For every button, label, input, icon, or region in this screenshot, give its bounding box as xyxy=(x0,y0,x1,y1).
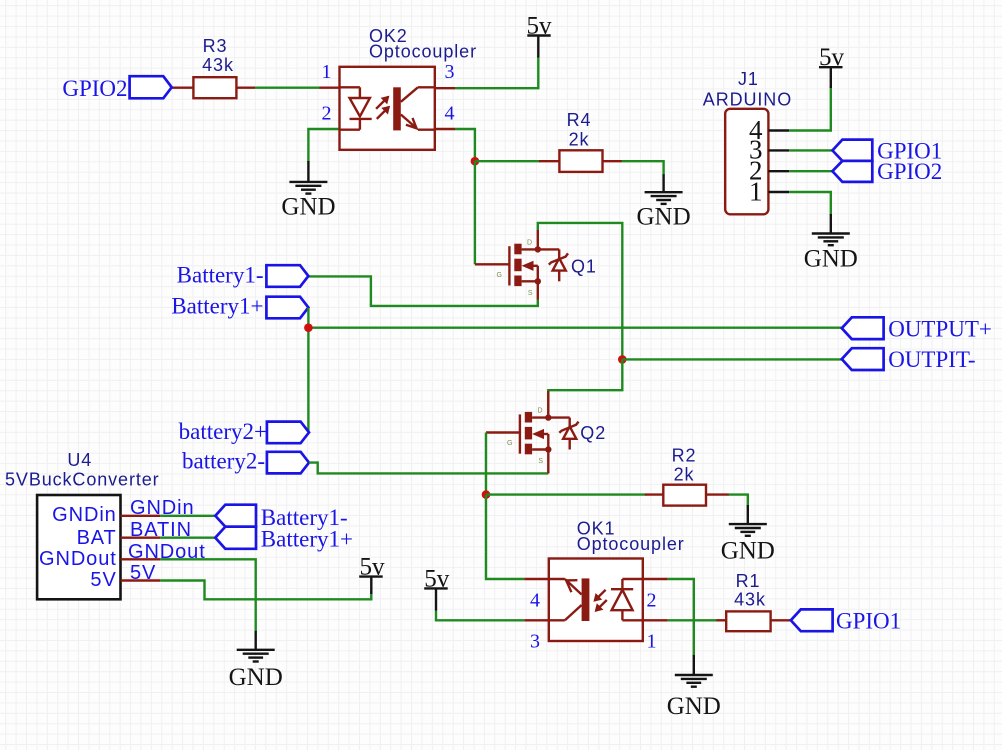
svg-text:ARDUINO: ARDUINO xyxy=(703,90,792,110)
wire battery2- to Q2 source xyxy=(309,448,548,473)
port GPIO1 R1 xyxy=(791,609,833,631)
resistor R3 xyxy=(193,77,236,98)
svg-text:GND: GND xyxy=(667,693,721,720)
svg-text:43k: 43k xyxy=(202,55,234,75)
svg-text:GPIO2: GPIO2 xyxy=(877,159,942,184)
junction node OUTPIT- xyxy=(618,355,627,364)
power 5v U4 xyxy=(359,554,385,594)
port battery2+ xyxy=(267,422,309,444)
svg-text:J1: J1 xyxy=(738,69,759,89)
svg-text:1: 1 xyxy=(647,631,657,653)
port Battery1+ U4 xyxy=(215,527,256,549)
junction node OUTPUT+ xyxy=(304,323,313,332)
svg-text:R1: R1 xyxy=(736,571,761,591)
wire U4 GNDout to ground xyxy=(160,559,255,631)
port Battery1- U4 xyxy=(215,505,256,527)
wire GPIO2 to R3 xyxy=(172,86,194,88)
transistor Q1 xyxy=(497,230,568,300)
svg-text:GND: GND xyxy=(637,204,691,231)
svg-text:3: 3 xyxy=(445,61,455,83)
wire J1 pin 2 to GPIO2 xyxy=(789,170,833,172)
svg-text:U4: U4 xyxy=(67,450,92,470)
svg-text:Battery1+: Battery1+ xyxy=(171,294,263,319)
svg-text:5v: 5v xyxy=(819,44,845,71)
port GPIO1 J1 xyxy=(832,140,872,161)
wire R1 to GPIO1 xyxy=(771,619,792,621)
wire U4 GNDin to Battery1- xyxy=(160,515,216,517)
svg-text:battery2+: battery2+ xyxy=(179,419,267,444)
wire Q1 source to Battery1- xyxy=(309,276,538,306)
svg-text:4: 4 xyxy=(445,103,455,125)
svg-text:5VBuckConverter: 5VBuckConverter xyxy=(5,470,160,490)
svg-text:Q2: Q2 xyxy=(580,423,606,443)
wire J1 pin 3 to GPIO1 xyxy=(789,149,833,151)
resistor R2 xyxy=(663,485,706,506)
wire Q1 drain to OUTPIT- node xyxy=(538,223,623,360)
ground GND R2 xyxy=(721,505,775,565)
ground GND R4 xyxy=(637,174,691,230)
wire R3 to OK2 pin 1 xyxy=(236,86,340,88)
ground GND J1 xyxy=(804,214,858,273)
svg-text:Q1: Q1 xyxy=(571,257,597,277)
svg-text:R2: R2 xyxy=(672,446,697,466)
svg-text:R3: R3 xyxy=(203,36,228,56)
svg-text:2: 2 xyxy=(647,590,657,612)
optocoupler OK2 xyxy=(340,67,435,150)
port GPIO2 J1 xyxy=(832,161,872,182)
power 5v OK1 xyxy=(424,565,450,610)
svg-text:5v: 5v xyxy=(527,13,553,40)
svg-text:5v: 5v xyxy=(360,554,386,581)
connector J1 xyxy=(725,109,789,215)
svg-text:GND: GND xyxy=(229,664,283,691)
wire OK1 pin 1 to R1 xyxy=(643,619,727,621)
junction node OK2.4/R4/Q1 gate xyxy=(471,157,480,166)
svg-text:OUTPUT+: OUTPUT+ xyxy=(888,316,992,341)
ground GND OK1 xyxy=(667,655,721,720)
svg-text:GND: GND xyxy=(804,246,858,273)
svg-text:2k: 2k xyxy=(674,465,695,485)
wire Q1 drain down to Q2 drain xyxy=(548,359,622,418)
wire node down to Q1 gate xyxy=(475,161,510,264)
svg-text:G: G xyxy=(497,272,502,279)
wire OK2 pin 3 to 5v xyxy=(434,56,538,88)
svg-text:Optocoupler: Optocoupler xyxy=(369,42,477,62)
transistor Q2 xyxy=(507,408,578,466)
svg-text:2k: 2k xyxy=(569,130,590,150)
port battery2- xyxy=(267,452,309,474)
wire OK1 pin 2 to ground xyxy=(643,579,694,656)
svg-text:1: 1 xyxy=(749,176,763,206)
svg-text:3: 3 xyxy=(530,631,540,653)
ground GND U4 xyxy=(229,631,283,691)
svg-text:BAT: BAT xyxy=(77,527,117,549)
IC U4 xyxy=(37,495,160,599)
wire node to R4 xyxy=(475,160,560,162)
svg-text:43k: 43k xyxy=(734,590,766,610)
power 5v J1 xyxy=(819,44,845,88)
wire U4 BAT to Battery1+ xyxy=(160,537,216,539)
svg-text:4: 4 xyxy=(530,590,540,612)
svg-text:R4: R4 xyxy=(567,110,592,130)
svg-text:GNDout: GNDout xyxy=(39,548,117,570)
svg-text:GNDin: GNDin xyxy=(52,504,117,526)
svg-text:D: D xyxy=(527,240,532,247)
wire R2 to ground xyxy=(706,495,748,506)
port GPIO2 xyxy=(130,76,172,98)
svg-text:Battery1-: Battery1- xyxy=(177,262,264,287)
wire OK2 pin 2 to ground xyxy=(308,129,339,162)
wire J1 pin 4 to 5v xyxy=(789,86,831,130)
svg-text:5V: 5V xyxy=(90,569,116,591)
port Battery1+ top xyxy=(266,297,308,319)
resistor R1 xyxy=(726,611,770,631)
resistor R4 xyxy=(559,150,602,172)
wire OK2 pin 4 to node xyxy=(434,129,475,162)
wire OUTPIT- row xyxy=(622,358,842,360)
svg-text:S: S xyxy=(528,290,533,297)
svg-text:5V: 5V xyxy=(130,562,156,584)
power 5v OK2 xyxy=(527,13,553,58)
wire U4 5V to 5v symbol xyxy=(160,581,371,600)
svg-text:GND: GND xyxy=(281,194,335,221)
svg-text:GND: GND xyxy=(721,538,775,565)
svg-text:S: S xyxy=(538,458,543,465)
svg-text:D: D xyxy=(537,408,542,415)
wire R4 to ground xyxy=(603,161,664,175)
wire Battery1+ to OUTPUT+ and battery2+ xyxy=(308,308,842,433)
svg-text:Battery1+: Battery1+ xyxy=(261,527,353,552)
svg-text:GPIO2: GPIO2 xyxy=(62,76,127,101)
wire J1 pin 1 to ground xyxy=(789,192,831,215)
port Battery1- top xyxy=(266,265,308,287)
svg-text:battery2-: battery2- xyxy=(182,449,265,474)
wire node to R2 xyxy=(486,493,664,495)
svg-text:G: G xyxy=(507,440,512,447)
wire node to OK1 pin 4 xyxy=(486,495,550,579)
junction node Q2 gate/R2/OK1 xyxy=(482,490,491,499)
port OUTPUT+ xyxy=(842,317,884,339)
svg-text:OUTPIT-: OUTPIT- xyxy=(888,347,975,372)
wire Q2 gate node xyxy=(486,433,520,496)
port OUTPIT- xyxy=(842,348,884,370)
optocoupler OK1 xyxy=(549,559,643,642)
wire 5v to OK1 pin 3 xyxy=(436,611,550,621)
svg-text:2: 2 xyxy=(322,103,332,125)
svg-text:5v: 5v xyxy=(424,565,450,592)
svg-text:1: 1 xyxy=(322,61,332,83)
ground GND OK2 xyxy=(281,161,335,221)
svg-text:GPIO1: GPIO1 xyxy=(836,609,901,634)
svg-text:Optocoupler: Optocoupler xyxy=(577,534,685,554)
